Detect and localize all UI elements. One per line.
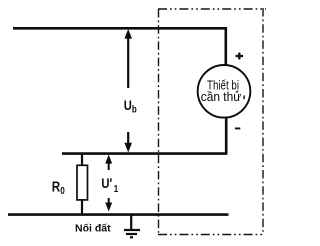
boundary frame right (dash-dot) xyxy=(262,8,264,235)
plus terminal label xyxy=(236,53,243,60)
wire: bottom ground bus xyxy=(8,213,229,216)
wire: middle bus xyxy=(62,152,227,155)
minus terminal label xyxy=(235,128,240,130)
voltage arrow Ub lower part (head down) xyxy=(124,132,132,152)
wire: device to middle bus xyxy=(225,117,228,155)
resistor R0 body xyxy=(77,165,88,200)
svg-text:Ub: Ub xyxy=(124,98,137,115)
ground symbol bar 3 xyxy=(130,236,133,238)
wire: drop from top bus to device xyxy=(225,27,228,66)
svg-text:cần thử: cần thử xyxy=(201,90,242,105)
test device circle (Thiết bị cần thử) xyxy=(198,65,251,118)
resistor R0 bottom lead xyxy=(81,200,83,214)
resistor R0 top lead xyxy=(81,154,83,166)
svg-text:U′1: U′1 xyxy=(101,176,118,194)
scan artifact mark after thử xyxy=(243,96,245,100)
voltage arrow Ub upper part (head up) xyxy=(124,29,132,88)
voltage arrow U'1 upper part (head up) xyxy=(105,155,112,170)
svg-text:Nối đất: Nối đất xyxy=(75,223,111,235)
svg-text:R0: R0 xyxy=(52,178,65,196)
ground symbol stub xyxy=(130,215,132,230)
boundary frame bottom (dash-dot) xyxy=(158,234,263,236)
ground symbol bar 2 xyxy=(126,233,137,235)
boundary frame top (dash-dot) xyxy=(158,8,266,10)
boundary frame left (dash-dot) xyxy=(158,9,160,235)
ground symbol bar 1 xyxy=(124,229,140,231)
voltage arrow U'1 lower part (head down) xyxy=(105,198,112,212)
wire: top supply bus xyxy=(13,27,227,30)
